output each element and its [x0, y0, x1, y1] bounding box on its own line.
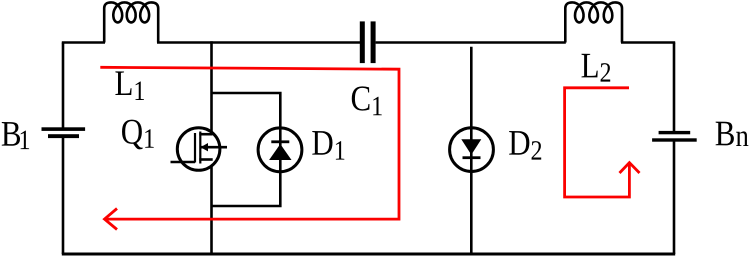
diode D2	[450, 128, 494, 172]
wire top left segment	[62, 41, 105, 44]
svg-text:D2: D2	[508, 124, 542, 167]
svg-text:D1: D1	[311, 124, 345, 167]
svg-text:B1: B1	[1, 115, 31, 156]
wire Q1 drain vertical	[210, 41, 213, 135]
wire D2 vertical bottom	[470, 169, 473, 255]
inductor L1	[104, 2, 158, 42]
wire right rail	[673, 43, 676, 133]
svg-text:Q1: Q1	[121, 112, 155, 154]
red current loop i2 path	[565, 88, 630, 197]
wire left rail	[62, 43, 65, 129]
red current loop i1 path	[100, 67, 399, 219]
diode D1	[258, 128, 302, 172]
battery B1	[42, 127, 86, 138]
svg-text:L2: L2	[581, 46, 612, 88]
red current loop i2 arrowhead	[620, 163, 640, 173]
wire top middle segment (L1 to C1)	[157, 41, 360, 44]
svg-text:L1: L1	[114, 64, 145, 107]
capacitor C1	[360, 21, 376, 63]
wire top right segment (L2 to right rail)	[621, 41, 675, 44]
svg-text:C1: C1	[350, 79, 383, 122]
red current loop i1 arrowhead	[105, 209, 118, 230]
wire D1 branch bottom	[212, 171, 281, 206]
transistor Q1	[171, 128, 228, 171]
inductor L2	[565, 2, 622, 42]
wire D2 vertical top	[470, 47, 473, 130]
wire D1 branch top	[212, 93, 281, 128]
svg-text:Bn: Bn	[715, 114, 750, 154]
wire top segment (C1 to L2)	[376, 41, 566, 44]
battery Bn	[652, 131, 697, 142]
wire bottom	[62, 253, 675, 256]
wire Q1 source vertical	[210, 158, 213, 255]
